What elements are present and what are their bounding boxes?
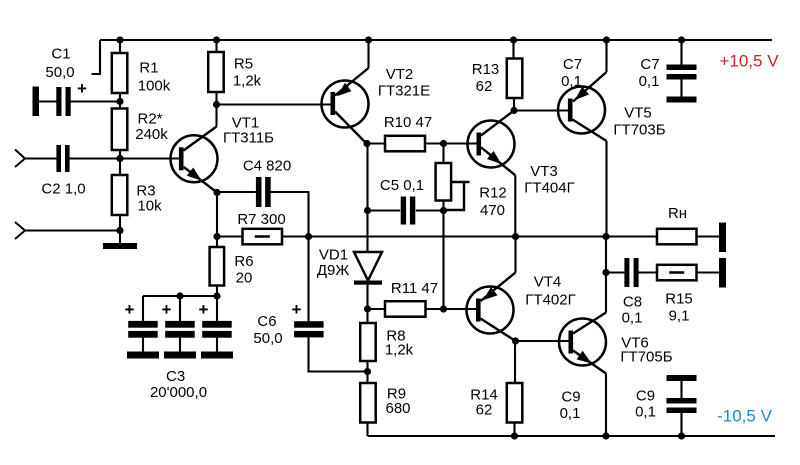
capacitor C3 unit 3 [216,296,218,322]
transistor VT1 [171,135,218,182]
node R8 bottom / C6 / R9 [364,368,371,375]
node C7 on rail [678,36,685,43]
capacitor C7 [680,40,682,65]
node C5 left [364,207,371,214]
output terminal bar 2 [719,258,726,288]
capacitor C4 820 [256,177,262,207]
svg-text:+10,5 V: +10,5 V [719,52,779,71]
svg-text:R2*: R2* [137,111,162,128]
wire VT2 collector down to VD1 [366,144,368,253]
resistor R12 [436,163,452,201]
wire input1 to C2 [25,157,58,159]
svg-text:0,1: 0,1 [622,310,643,327]
node R13 top on rail [510,36,517,43]
wire VT1 collector up [215,105,217,127]
wire to VT4 base [444,308,477,310]
svg-text:VT4: VT4 [534,274,562,291]
capacitor C9 [667,375,697,381]
svg-text:C3: C3 [166,368,185,385]
svg-text:R5: R5 [234,56,253,73]
svg-text:ГТ404Г: ГТ404Г [524,180,574,197]
node output mid / VT3-VT4 emitters [512,233,519,240]
svg-text:240k: 240k [135,126,168,143]
node C8 branch [602,269,609,276]
diode VD1 [354,252,382,281]
svg-text:20'000,0: 20'000,0 [150,384,207,401]
resistor R15 [657,265,697,281]
svg-text:C9: C9 [636,388,655,405]
svg-text:ГТ321Е: ГТ321Е [378,83,430,100]
resistor R7 300 [243,229,283,245]
wire VT6 emitter to bottom rail [605,374,607,437]
svg-text:20: 20 [236,270,253,287]
resistor R6 [210,247,225,286]
svg-text:C4 820: C4 820 [243,158,291,175]
capacitor C1 [33,87,40,117]
node R10 right / R12 / VT3 base [440,140,447,147]
wire VT5 collector down to output [605,141,607,237]
output terminal bar 1 [719,223,726,253]
node VT1 collector / R5 [213,101,220,108]
node R7 right / C4 / C6 / feedback [305,233,312,240]
transistor VT4 [467,287,514,334]
wire VT1 emitter down [216,193,218,237]
node VT5 emitter on rail [603,36,610,43]
wire VT3 emitter down to output node [514,175,516,236]
node C3 middle stem [176,292,183,299]
node C3 bus / R6 [213,292,220,299]
svg-text:50,0: 50,0 [45,64,74,81]
svg-text:+: + [292,300,302,319]
svg-text:VD1: VD1 [319,247,348,264]
wire VD1 cathode down [366,285,368,309]
wire VT3 collector to VT5 base [514,109,568,111]
svg-text:9,1: 9,1 [669,308,690,325]
svg-text:C5 0,1: C5 0,1 [380,177,424,194]
resistor R1 [112,53,128,93]
wire C8 to R15 [637,271,657,273]
svg-text:C9: C9 [561,389,580,406]
svg-text:62: 62 [476,402,493,419]
svg-text:R7 300: R7 300 [237,211,285,228]
R12 tap mark [451,181,470,183]
node R11 right / VT4 base [440,305,447,312]
svg-text:R12: R12 [479,185,507,202]
svg-text:1,2k: 1,2k [385,342,414,359]
svg-text:C7: C7 [563,56,582,73]
wire R12 node down to R11 [442,211,444,310]
capacitor C6 [307,237,309,322]
svg-text:R15: R15 [665,291,693,308]
node VD1 / R11 / R8 [364,305,371,312]
wire VT1 base [120,157,179,159]
wire VT4 collector to VT6 base [516,340,569,342]
resistor R8 [360,323,376,361]
wire C1 to R1/R2 node [69,100,120,102]
svg-text:10k: 10k [137,198,162,215]
svg-text:50,0: 50,0 [253,330,282,347]
wire C4 to feedback node [269,192,309,237]
node VT6 emitter on rail [602,432,609,439]
wire top-rail left hook [92,40,101,74]
node VT4 collector / R14 / VT6 base [512,337,519,344]
svg-text:VT2: VT2 [386,66,414,83]
svg-text:VT3: VT3 [530,163,558,180]
resistor Rn load [657,229,697,245]
svg-text:Rн: Rн [668,205,687,222]
svg-text:C2 1,0: C2 1,0 [41,181,85,198]
wire VT4 emitter up [514,237,516,273]
wire R15 to terminal [697,271,720,273]
svg-text:0,1: 0,1 [635,404,656,421]
svg-text:680: 680 [385,400,410,417]
wire to VT3 base [444,142,477,144]
svg-text:C6: C6 [257,313,276,330]
svg-text:C7: C7 [640,56,659,73]
transistor VT6 [559,319,606,366]
input terminal 2 chevron [15,222,25,239]
svg-text:R1: R1 [139,60,158,77]
wire to VT2 base [217,103,331,105]
resistor R9 [360,383,376,423]
svg-text:ГТ311Б: ГТ311Б [223,130,274,147]
svg-text:Д9Ж: Д9Ж [317,262,350,279]
resistor R13 [507,59,523,99]
svg-text:62: 62 [476,78,493,95]
node output / Rn [602,233,609,240]
svg-text:+: + [162,300,172,319]
transistor VT5 [558,87,605,134]
svg-text:R11 47: R11 47 [391,280,438,297]
svg-text:ГТ705Б: ГТ705Б [620,349,672,366]
node R7 left / R6 / VT1 emitter [213,233,220,240]
transistor VT3 [468,121,515,168]
node VT3 collector / R13 / VT5 base [510,107,517,114]
node C9 on rail [678,432,685,439]
capacitor C3 unit 1 [142,296,144,322]
node R1/R2/C1 [116,98,123,105]
svg-text:R6: R6 [234,253,253,270]
capacitor C2 [56,145,61,172]
wire C3 bus [143,295,217,297]
node VT1 emitter [213,189,220,196]
wire Rn to terminal [697,235,720,237]
wire VT1 emitter to C4 [217,191,258,193]
node R1 top on rail [116,36,123,43]
wire C6 bottom to R8/R9 node [309,337,369,372]
node R14 bottom on rail [511,432,518,439]
svg-text:C8: C8 [623,294,642,311]
wire R9 to bottom rail [366,423,368,437]
wire output to Rn [606,235,657,237]
wire output down to C8 node [605,237,607,273]
svg-text:100k: 100k [138,78,171,95]
capacitor C8 0,1 [606,271,626,273]
svg-text:R13: R13 [472,61,500,78]
wire input2 to ground node [25,229,120,231]
svg-text:1,2k: 1,2k [233,73,262,90]
svg-text:0,1: 0,1 [561,73,582,90]
svg-text:ГТ402Г: ГТ402Г [525,292,575,309]
node R3 bottom / ground [116,227,123,234]
resistor R11 47 [385,301,426,317]
svg-text:0,1: 0,1 [560,405,581,422]
svg-text:VT5: VT5 [624,105,652,122]
svg-text:470: 470 [480,202,505,219]
wire VT5 emitter to rail [605,40,607,72]
node R5 top on rail [213,36,220,43]
node VT2 emitter on rail [365,36,372,43]
wire C8 node down to VT6 collector [605,273,607,313]
transistor VT2 [322,81,369,128]
wire VT2 emitter to rail [367,40,369,68]
wire -10.5V bottom rail [368,435,776,437]
wire +10.5V top rail [100,39,772,41]
input terminal 1 chevron [15,150,25,168]
resistor R5 [208,52,224,92]
wire VT4 collector to R14 [514,341,516,383]
node R12 bottom / C5 right [440,207,447,214]
svg-text:C1: C1 [51,46,70,63]
svg-text:+: + [77,79,87,98]
capacitor C3 unit 2 [179,296,181,322]
capacitor C5 0,1 [368,209,401,211]
resistor R14 [507,383,523,423]
svg-text:0,1: 0,1 [639,73,660,90]
node R2/R3/VT1 base [116,155,123,162]
resistor R10 47 [385,136,425,152]
node VT2 collector [363,140,370,147]
svg-text:+: + [199,300,209,319]
svg-text:ГТ703Б: ГТ703Б [613,122,665,139]
resistor R3 [112,175,128,215]
resistor R2* [112,109,128,151]
ground bar [119,231,121,244]
wire feedback line output to R7 node [309,235,607,237]
svg-text:-10,5 V: -10,5 V [717,407,772,426]
svg-text:+: + [125,300,135,319]
svg-text:R10 47: R10 47 [384,114,432,131]
wire C2 to base node [68,157,120,159]
